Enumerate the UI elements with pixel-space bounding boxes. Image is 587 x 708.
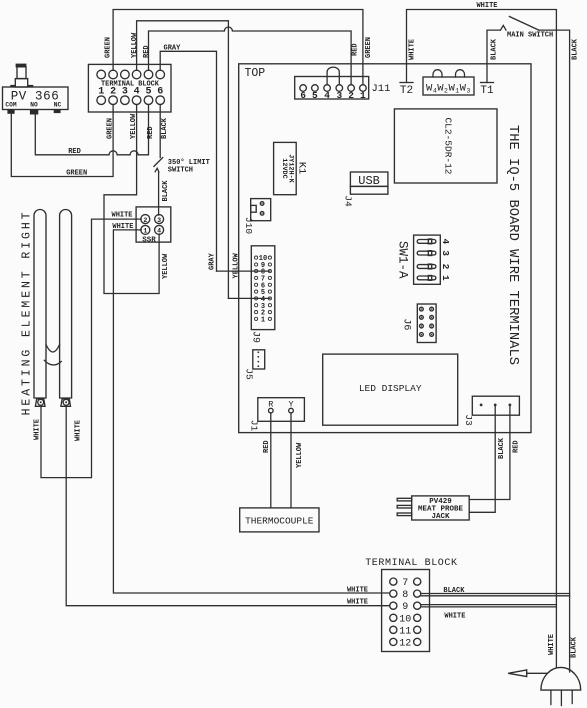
svg-text:WHITE: WHITE (408, 39, 416, 60)
wire RED : J1 R pin down to thermocouple (270, 413, 272, 508)
wire BLACK : T1 up to main switch left contact (487, 30, 500, 82)
svg-text:K1: K1 (296, 162, 308, 175)
connector J11 (295, 77, 391, 102)
svg-text:4: 4 (324, 90, 330, 101)
svg-text:1: 1 (143, 228, 147, 235)
wire WHITE : SSR pin 1 down to bottom terminal block pin 8 (113, 230, 389, 593)
arrow pointing to plug (508, 670, 547, 677)
svg-text:TOP: TOP (245, 67, 266, 80)
svg-text:CL2-5DR-12: CL2-5DR-12 (443, 117, 454, 174)
svg-text:1: 1 (261, 317, 265, 325)
svg-text:WHITE: WHITE (112, 223, 133, 231)
board outline IQ-5 (TOP view) (239, 64, 531, 433)
svg-text:9: 9 (402, 602, 408, 613)
wire YELLOW (thick) : J1 Y pin down to thermocouple (290, 413, 292, 508)
svg-text:GREEN: GREEN (365, 37, 373, 58)
wire RED : PV366 NO terminal to TB1 pin5 bottom, hops over green+yellow (35, 105, 148, 155)
wire GRAY : into J9 pin 8 (217, 270, 270, 272)
svg-text:J10: J10 (243, 217, 254, 234)
connector J6 (401, 304, 437, 343)
svg-text:THE IQ-5 BOARD WIRE TERMINALS: THE IQ-5 BOARD WIRE TERMINALS (505, 125, 520, 365)
wire GREEN : TB1 pin2 top to J11 pin1 (113, 10, 363, 85)
svg-text:JACK: JACK (431, 513, 450, 521)
svg-text:GREEN: GREEN (105, 37, 113, 58)
wire GRAY : TB1 pin6 top, right, down to J9 pin8 row (160, 51, 216, 271)
wire RED : J3 right pin to PV429 jack (469, 405, 510, 500)
svg-text:YELLOW: YELLOW (130, 113, 138, 139)
svg-text:T2: T2 (400, 85, 413, 97)
svg-text:SWITCH: SWITCH (168, 167, 193, 175)
main switch blade (509, 17, 538, 31)
svg-text:3: 3 (336, 90, 342, 101)
svg-text:LED DISPLAY: LED DISPLAY (359, 383, 422, 394)
svg-text:RED: RED (68, 148, 81, 156)
main switch contact caret (501, 25, 507, 30)
wire WHITE pair : TB2 pin 9 to right edge white wire (421, 604, 557, 606)
svg-text:4: 4 (440, 238, 451, 244)
svg-text:YELLOW: YELLOW (131, 32, 139, 58)
svg-text:8: 8 (402, 590, 408, 601)
svg-text:4: 4 (157, 228, 161, 235)
svg-text:2: 2 (440, 264, 451, 270)
svg-text:SSR: SSR (142, 236, 156, 244)
PV366 NC terminal (54, 110, 61, 114)
wire BLACK : TB1 pin6 bottom down to 350 limit switch (159, 105, 161, 158)
svg-text:TERMINAL BLOCK: TERMINAL BLOCK (365, 558, 457, 569)
terminal block TB1 (pins 1-6) (88, 64, 171, 112)
svg-text:WHITE: WHITE (75, 420, 83, 441)
svg-text:WHITE: WHITE (476, 2, 497, 10)
LED display (323, 354, 458, 425)
svg-text:WHITE: WHITE (347, 587, 368, 595)
power plug P1 (541, 667, 581, 705)
svg-text:WHITE: WHITE (112, 212, 133, 220)
svg-text:GRAY: GRAY (209, 252, 217, 270)
svg-text:11: 11 (399, 626, 411, 637)
svg-text:SW1-A: SW1-A (396, 241, 410, 279)
terminal block TB2 (pins 7-12) (382, 570, 430, 652)
svg-text:RED: RED (143, 45, 151, 58)
svg-text:3: 3 (157, 217, 161, 224)
plug prongs (550, 690, 552, 704)
svg-text:1: 1 (360, 90, 366, 101)
connector J10 (243, 199, 271, 235)
wire RED : TB1 pin5 top to J11 pin2, hop over yellow at x228.4 (149, 27, 352, 85)
svg-text:WHITE: WHITE (34, 419, 42, 440)
svg-text:BLACK: BLACK (498, 437, 506, 459)
wire WHITE : right heating terminal down to bottom terminal block pin 9 (66, 406, 390, 605)
svg-text:THERMOCOUPLE: THERMOCOUPLE (245, 516, 314, 527)
jack prongs (397, 498, 412, 501)
svg-text:MAIN SWITCH: MAIN SWITCH (507, 32, 553, 40)
PV429 meat probe jack (397, 496, 469, 521)
svg-text:YELLOW: YELLOW (162, 253, 170, 279)
PV366 COM terminal (7, 110, 14, 114)
wire YELLOW : into J9 pin 4 (228, 297, 270, 299)
svg-text:J6: J6 (401, 318, 412, 330)
svg-text:RED: RED (513, 440, 521, 453)
svg-text:BLACK: BLACK (443, 587, 465, 595)
svg-text:WHITE: WHITE (548, 634, 556, 655)
svg-text:BLACK: BLACK (571, 636, 579, 658)
svg-text:10: 10 (399, 614, 411, 625)
svg-text:6: 6 (300, 90, 306, 101)
element U-bend arcs (46, 345, 60, 353)
wire WHITE : left heating terminal to SSR pin 2 (41, 219, 141, 478)
USB connector J4 (343, 172, 388, 207)
wire BLACK : main switch right side down right edge to plug (539, 30, 570, 672)
SSR module (136, 207, 171, 244)
svg-text:YELLOW: YELLOW (296, 442, 304, 468)
connector J5 (244, 350, 265, 380)
wire BLACK : limit switch to SSR pin3 (158, 173, 160, 216)
svg-text:2: 2 (143, 217, 147, 224)
PV366 NO terminal (30, 110, 38, 115)
terminal T2 (400, 83, 413, 98)
svg-text:J11: J11 (372, 83, 391, 95)
svg-text:J3: J3 (463, 414, 474, 426)
svg-text:YELLOW: YELLOW (232, 252, 240, 278)
wire YELLOW : TB1 pin4 top, to x228.4 then down to J9 pin4 row (137, 21, 229, 299)
svg-text:GREEN: GREEN (66, 170, 87, 178)
heating element right terminal (61, 399, 71, 406)
svg-text:HEATING ELEMENT RIGHT: HEATING ELEMENT RIGHT (21, 210, 34, 416)
jumper wire between J11 pins 4 and 3 (327, 67, 339, 85)
component CL2-5DR-12 (394, 109, 497, 183)
connector J3 (463, 396, 519, 426)
connector J9 (pins 1-10) (250, 246, 275, 343)
svg-text:3: 3 (440, 250, 451, 256)
svg-text:2: 2 (348, 90, 354, 101)
wire YELLOW : TB1 pin4 bottom down, jog left, down to SSR pin4 from below (104, 105, 159, 294)
svg-text:NO: NO (30, 101, 38, 108)
svg-text:RED: RED (351, 43, 359, 56)
svg-text:BLACK: BLACK (161, 117, 169, 139)
svg-text:NC: NC (54, 101, 62, 108)
jumper block W4 W2 W1 W3 (423, 70, 474, 95)
svg-text:J5: J5 (244, 368, 255, 380)
connector J1 (249, 398, 305, 432)
svg-text:BLACK: BLACK (490, 38, 498, 60)
wire BLACK pair : TB2 pin 8 to right edge black wire (421, 593, 570, 595)
svg-text:GRAY: GRAY (164, 45, 182, 53)
svg-text:COM: COM (5, 101, 16, 108)
svg-text:RED: RED (147, 126, 155, 139)
DIP switch SW1-A (396, 235, 451, 284)
svg-text:J1: J1 (249, 420, 260, 432)
svg-text:RED: RED (263, 440, 271, 453)
svg-text:J4: J4 (343, 195, 354, 207)
wire BLACK : J3 middle pin to PV429 jack (469, 405, 495, 512)
svg-text:5: 5 (312, 90, 318, 101)
microswitch PV 366 (3, 64, 69, 115)
switch 350 limit : blade and contact (154, 158, 163, 167)
svg-text:W4W2W1W3: W4W2W1W3 (426, 83, 471, 95)
terminal T1 (480, 83, 494, 98)
svg-text:BLACK: BLACK (572, 38, 580, 60)
relay K1 (JY12H-K 12VDC) (274, 142, 308, 194)
wire GREEN : PV366 COM terminal to TB1 pin2 bottom (11, 105, 113, 177)
svg-text:J9: J9 (250, 331, 261, 343)
svg-text:WHITE: WHITE (347, 599, 368, 607)
svg-text:12VDC: 12VDC (280, 158, 288, 178)
svg-text:BLACK: BLACK (162, 180, 170, 202)
svg-text:12: 12 (399, 638, 411, 649)
svg-text:1: 1 (440, 275, 451, 281)
svg-text:7: 7 (402, 578, 408, 589)
heating element left terminal (35, 399, 45, 406)
svg-text:USB: USB (358, 174, 380, 188)
svg-text:JY12H-K: JY12H-K (287, 154, 295, 183)
wire WHITE : T2 up and across top, down right side to plug (407, 10, 557, 668)
svg-text:T1: T1 (480, 85, 494, 97)
heating element tubes (34, 210, 72, 399)
thermocouple box (240, 508, 319, 532)
svg-text:WHITE: WHITE (444, 612, 465, 620)
svg-text:GREEN: GREEN (107, 118, 115, 139)
